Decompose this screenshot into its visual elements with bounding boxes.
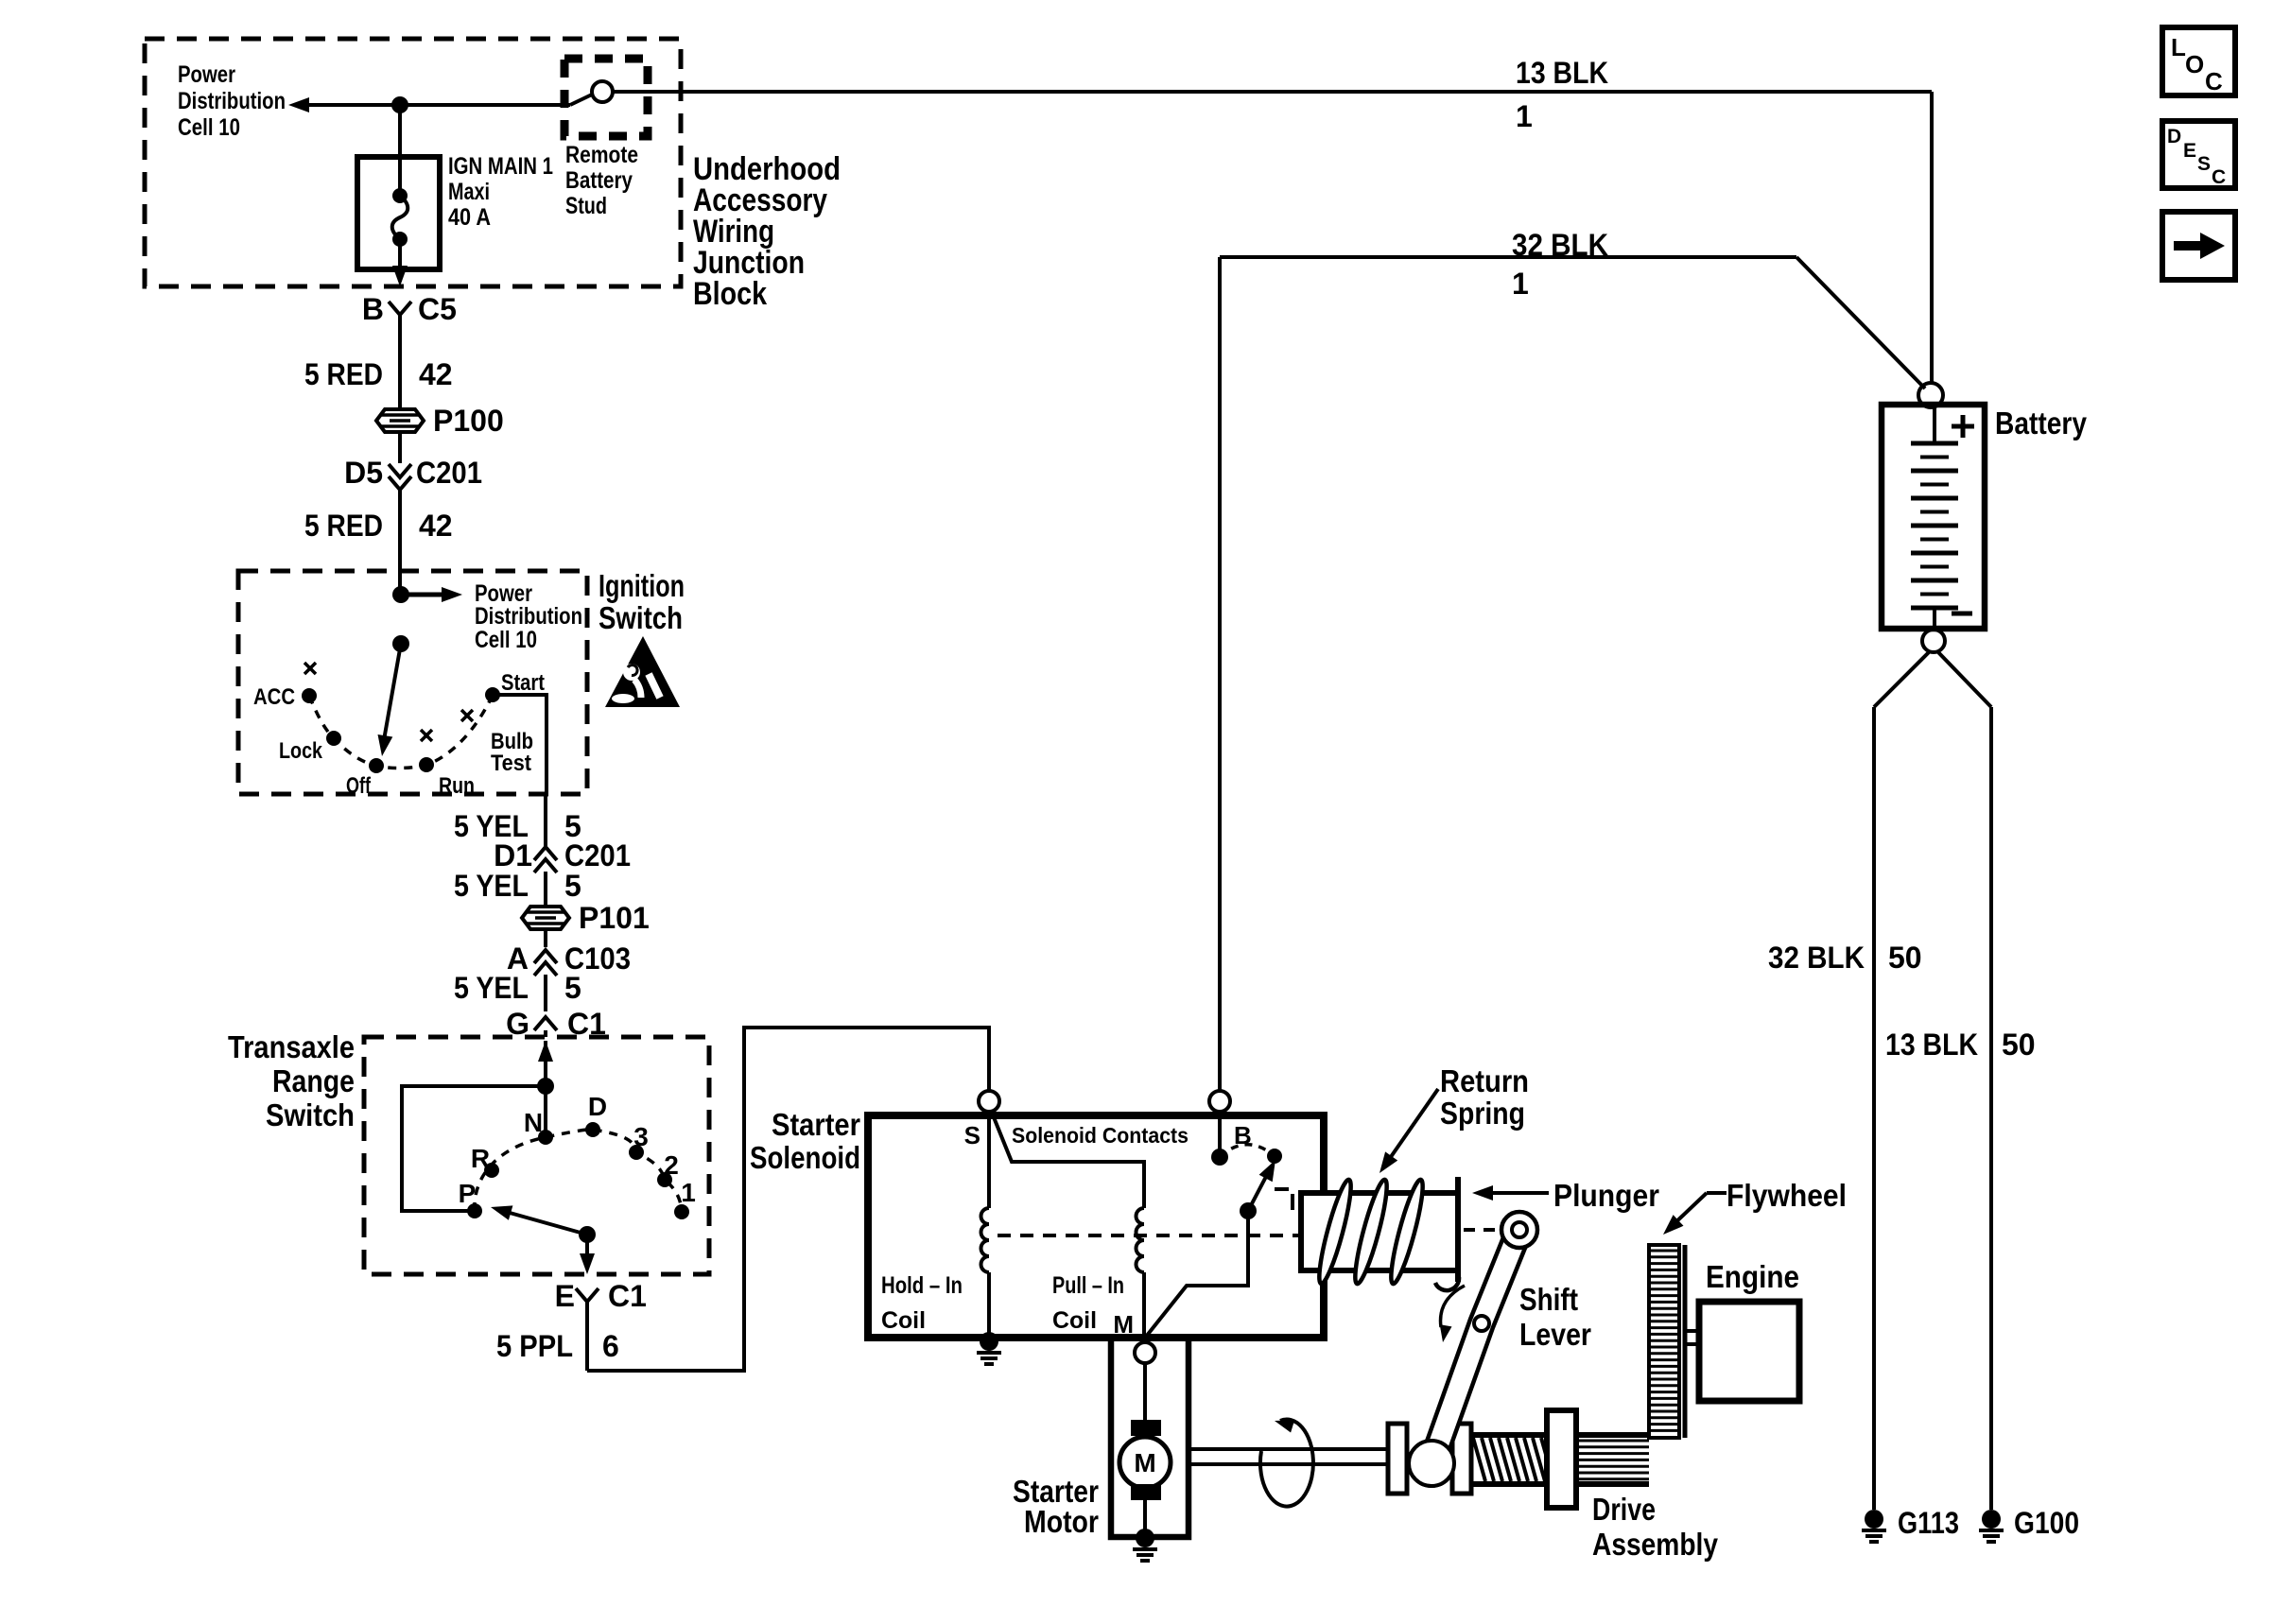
svg-text:C201: C201 [416, 456, 482, 490]
svg-text:P: P [459, 1179, 477, 1208]
svg-text:Battery: Battery [1995, 406, 2088, 441]
svg-text:2: 2 [664, 1150, 679, 1180]
svg-text:M: M [1134, 1448, 1155, 1477]
svg-text:Motor: Motor [1024, 1504, 1099, 1539]
svg-text:13 BLK: 13 BLK [1516, 56, 1608, 90]
svg-text:Solenoid: Solenoid [750, 1140, 860, 1175]
svg-text:42: 42 [419, 357, 453, 391]
svg-text:13 BLK: 13 BLK [1885, 1028, 1978, 1062]
svg-text:Coil: Coil [1052, 1307, 1097, 1334]
svg-text:Transaxle: Transaxle [228, 1029, 355, 1064]
svg-text:Drive: Drive [1592, 1492, 1656, 1527]
svg-text:Lever: Lever [1519, 1317, 1591, 1352]
svg-text:B: B [362, 292, 384, 326]
svg-text:M: M [1113, 1310, 1134, 1339]
svg-text:5: 5 [564, 869, 581, 903]
svg-text:1: 1 [1516, 99, 1533, 133]
svg-text:5 RED: 5 RED [304, 509, 383, 543]
svg-text:D1: D1 [494, 838, 532, 872]
svg-text:G113: G113 [1898, 1506, 1959, 1540]
svg-text:5 YEL: 5 YEL [454, 869, 529, 903]
svg-text:Power: Power [178, 61, 235, 88]
svg-text:50: 50 [1888, 941, 1922, 975]
svg-text:Range: Range [272, 1063, 355, 1098]
svg-text:5 RED: 5 RED [304, 357, 383, 391]
svg-text:C1: C1 [608, 1279, 647, 1313]
svg-text:Coil: Coil [881, 1307, 926, 1334]
svg-text:Cell 10: Cell 10 [178, 114, 240, 141]
svg-text:Hold – In: Hold – In [881, 1272, 963, 1299]
svg-text:32 BLK: 32 BLK [1768, 941, 1865, 975]
svg-text:S: S [2197, 153, 2211, 175]
svg-text:P100: P100 [433, 404, 504, 438]
svg-text:G100: G100 [2014, 1506, 2079, 1540]
svg-text:P101: P101 [579, 901, 650, 935]
svg-text:Off: Off [346, 773, 372, 799]
svg-text:L: L [2171, 33, 2186, 61]
svg-text:Maxi: Maxi [448, 179, 490, 205]
svg-text:Switch: Switch [266, 1097, 355, 1132]
svg-text:1: 1 [681, 1178, 696, 1207]
svg-text:D5: D5 [344, 456, 383, 490]
svg-text:Solenoid Contacts: Solenoid Contacts [1012, 1123, 1189, 1148]
svg-text:Battery: Battery [565, 167, 633, 194]
svg-text:C: C [2205, 67, 2223, 95]
svg-text:Remote: Remote [565, 142, 638, 168]
svg-text:Cell 10: Cell 10 [475, 627, 537, 653]
svg-text:Engine: Engine [1706, 1259, 1799, 1294]
svg-text:D: D [2167, 126, 2181, 147]
svg-text:6: 6 [602, 1329, 619, 1363]
svg-text:Block: Block [693, 276, 767, 312]
svg-text:3: 3 [633, 1122, 649, 1151]
svg-text:Start: Start [501, 670, 545, 696]
svg-text:ACC: ACC [253, 684, 295, 710]
svg-text:Assembly: Assembly [1592, 1527, 1719, 1562]
svg-text:5: 5 [564, 971, 581, 1005]
svg-text:N: N [524, 1108, 543, 1137]
svg-text:E: E [555, 1279, 575, 1313]
svg-text:Stud: Stud [565, 193, 607, 219]
svg-text:Ignition: Ignition [599, 568, 685, 603]
svg-text:Test: Test [491, 751, 531, 776]
svg-text:Distribution: Distribution [475, 603, 582, 630]
svg-text:5 PPL: 5 PPL [496, 1329, 573, 1363]
svg-text:40 A: 40 A [448, 204, 491, 231]
svg-text:Return: Return [1440, 1063, 1529, 1098]
svg-text:C201: C201 [564, 838, 631, 872]
svg-text:IGN MAIN 1: IGN MAIN 1 [448, 153, 553, 180]
svg-text:E: E [2183, 140, 2196, 162]
svg-text:50: 50 [2002, 1028, 2036, 1062]
svg-text:Distribution: Distribution [178, 88, 286, 114]
svg-text:Lock: Lock [279, 738, 323, 764]
svg-text:R: R [471, 1144, 490, 1173]
svg-text:C5: C5 [418, 292, 457, 326]
svg-text:Pull – In: Pull – In [1052, 1272, 1124, 1299]
svg-text:O: O [2185, 50, 2204, 78]
svg-text:1: 1 [1512, 267, 1529, 301]
svg-text:Run: Run [439, 773, 475, 799]
svg-text:5 YEL: 5 YEL [454, 971, 529, 1005]
svg-text:Plunger: Plunger [1553, 1178, 1659, 1213]
svg-text:S: S [964, 1121, 980, 1149]
svg-text:Spring: Spring [1440, 1096, 1525, 1131]
svg-text:Flywheel: Flywheel [1726, 1178, 1847, 1213]
svg-text:Starter: Starter [772, 1107, 860, 1142]
svg-text:Switch: Switch [599, 600, 683, 635]
svg-text:D: D [588, 1092, 607, 1121]
svg-text:Shift: Shift [1519, 1282, 1578, 1317]
svg-text:42: 42 [419, 509, 453, 543]
svg-text:C: C [2212, 166, 2226, 188]
